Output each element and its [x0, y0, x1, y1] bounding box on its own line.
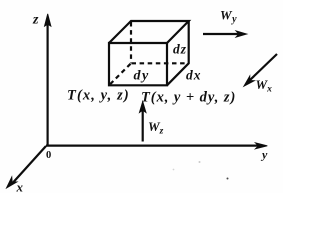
svg-text:T(x, y + dy, z): T(x, y + dy, z): [141, 90, 236, 106]
cube hidden edge horizontal (back-bottom): [132, 62, 189, 64]
cube hidden edge diagonal (bottom-left depth): [109, 64, 131, 86]
svg-text:dx: dx: [186, 68, 202, 83]
svg-text:z: z: [32, 13, 39, 28]
svg-text:y: y: [260, 148, 268, 162]
cube hidden edge vertical (back-left): [130, 22, 132, 63]
scan speck faint: [199, 161, 201, 163]
Wz arrow: [139, 102, 146, 142]
cube right face: [167, 21, 189, 85]
scan speck faint: [173, 169, 175, 171]
z-axis: [45, 14, 51, 146]
scan speck: [227, 178, 229, 180]
svg-text:dy: dy: [134, 69, 150, 84]
cube top face: [109, 21, 189, 43]
svg-text:0: 0: [46, 150, 51, 161]
svg-text:Wz: Wz: [148, 119, 164, 137]
y-axis: [46, 143, 267, 149]
Wy arrow: [203, 31, 247, 37]
Wx arrow: [244, 54, 277, 86]
cube front face: [109, 43, 167, 85]
svg-text:dz: dz: [173, 42, 187, 57]
svg-text:x: x: [16, 180, 24, 194]
svg-text:Wx: Wx: [256, 77, 273, 95]
svg-text:Wy: Wy: [220, 8, 237, 26]
svg-text:T(x, y, z): T(x, y, z): [67, 88, 130, 104]
x-axis: [7, 146, 47, 188]
